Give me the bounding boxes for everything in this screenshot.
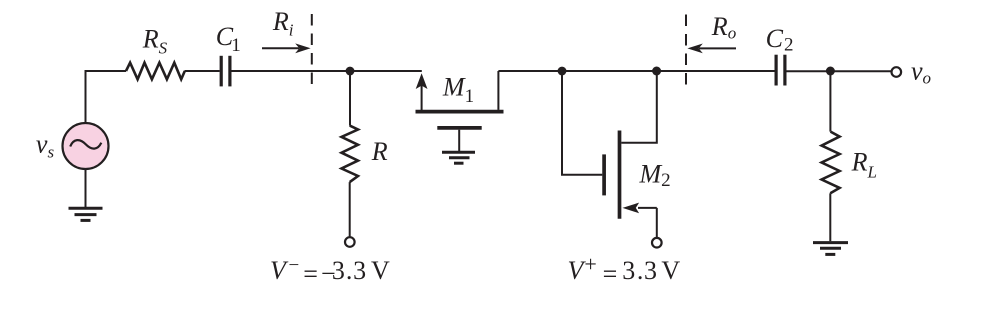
wire: RS to C1 bbox=[185, 70, 220, 72]
terminal: V- open circle bbox=[345, 237, 355, 247]
svg-text:M1: M1 bbox=[442, 72, 474, 107]
ground (RL) bbox=[813, 243, 848, 255]
capacitor C2 bbox=[776, 55, 785, 86]
node: output junction bbox=[826, 67, 835, 76]
voltage source vs bbox=[63, 123, 109, 169]
svg-text:vs: vs bbox=[36, 130, 55, 162]
node: M2 gate branch bbox=[558, 67, 567, 76]
wire: M2 source to V+ terminal bbox=[656, 208, 658, 238]
capacitor C1 bbox=[221, 56, 230, 87]
svg-text:R: R bbox=[371, 137, 388, 166]
wire: M1 drain to C2 bbox=[498, 70, 774, 72]
wire: output node down to RL bbox=[829, 71, 831, 132]
svg-text:C2: C2 bbox=[766, 24, 794, 56]
transistor M1 bbox=[416, 71, 504, 151]
arrow Ro bbox=[687, 44, 736, 54]
resistor RL bbox=[822, 132, 840, 194]
resistor R bbox=[342, 126, 359, 183]
wire: gate branch down to M2 gate bbox=[562, 71, 602, 175]
svg-text:Ri: Ri bbox=[272, 7, 294, 40]
arrow Ri bbox=[262, 43, 311, 53]
svg-text:V+=3.3V: V+=3.3V bbox=[568, 252, 681, 289]
wire: R to V- terminal bbox=[349, 182, 351, 237]
svg-text:V−=−3.3V: V−=−3.3V bbox=[270, 255, 390, 288]
wire: RL to ground bbox=[829, 193, 831, 241]
node: M2 drain branch bbox=[652, 67, 661, 76]
node: input junction bbox=[346, 67, 355, 76]
resistor RS bbox=[126, 63, 185, 80]
terminal: V+ open circle bbox=[652, 238, 662, 248]
wire: drain branch down to M2 drain bbox=[621, 71, 657, 143]
wire: node down to R bbox=[349, 71, 351, 126]
wire: C1 to M1 source bbox=[232, 70, 422, 72]
output boundary dashed line Ro bbox=[685, 15, 687, 87]
wire: C2 to vo terminal bbox=[787, 70, 892, 72]
ground (M1 gate) bbox=[442, 152, 475, 163]
svg-text:vo: vo bbox=[911, 57, 931, 88]
svg-text:C1: C1 bbox=[216, 22, 241, 56]
transistor M2 bbox=[604, 131, 657, 219]
svg-text:M2: M2 bbox=[639, 159, 671, 191]
svg-text:RL: RL bbox=[851, 148, 877, 182]
wire: vs top to RS bbox=[86, 71, 127, 124]
terminal: vo open circle bbox=[892, 67, 902, 77]
svg-text:RS: RS bbox=[142, 25, 168, 58]
wire: vs bottom to ground bbox=[85, 169, 87, 207]
svg-text:Ro: Ro bbox=[711, 12, 736, 43]
ground (vs) bbox=[69, 208, 103, 220]
input boundary dashed line Ri bbox=[311, 14, 313, 86]
